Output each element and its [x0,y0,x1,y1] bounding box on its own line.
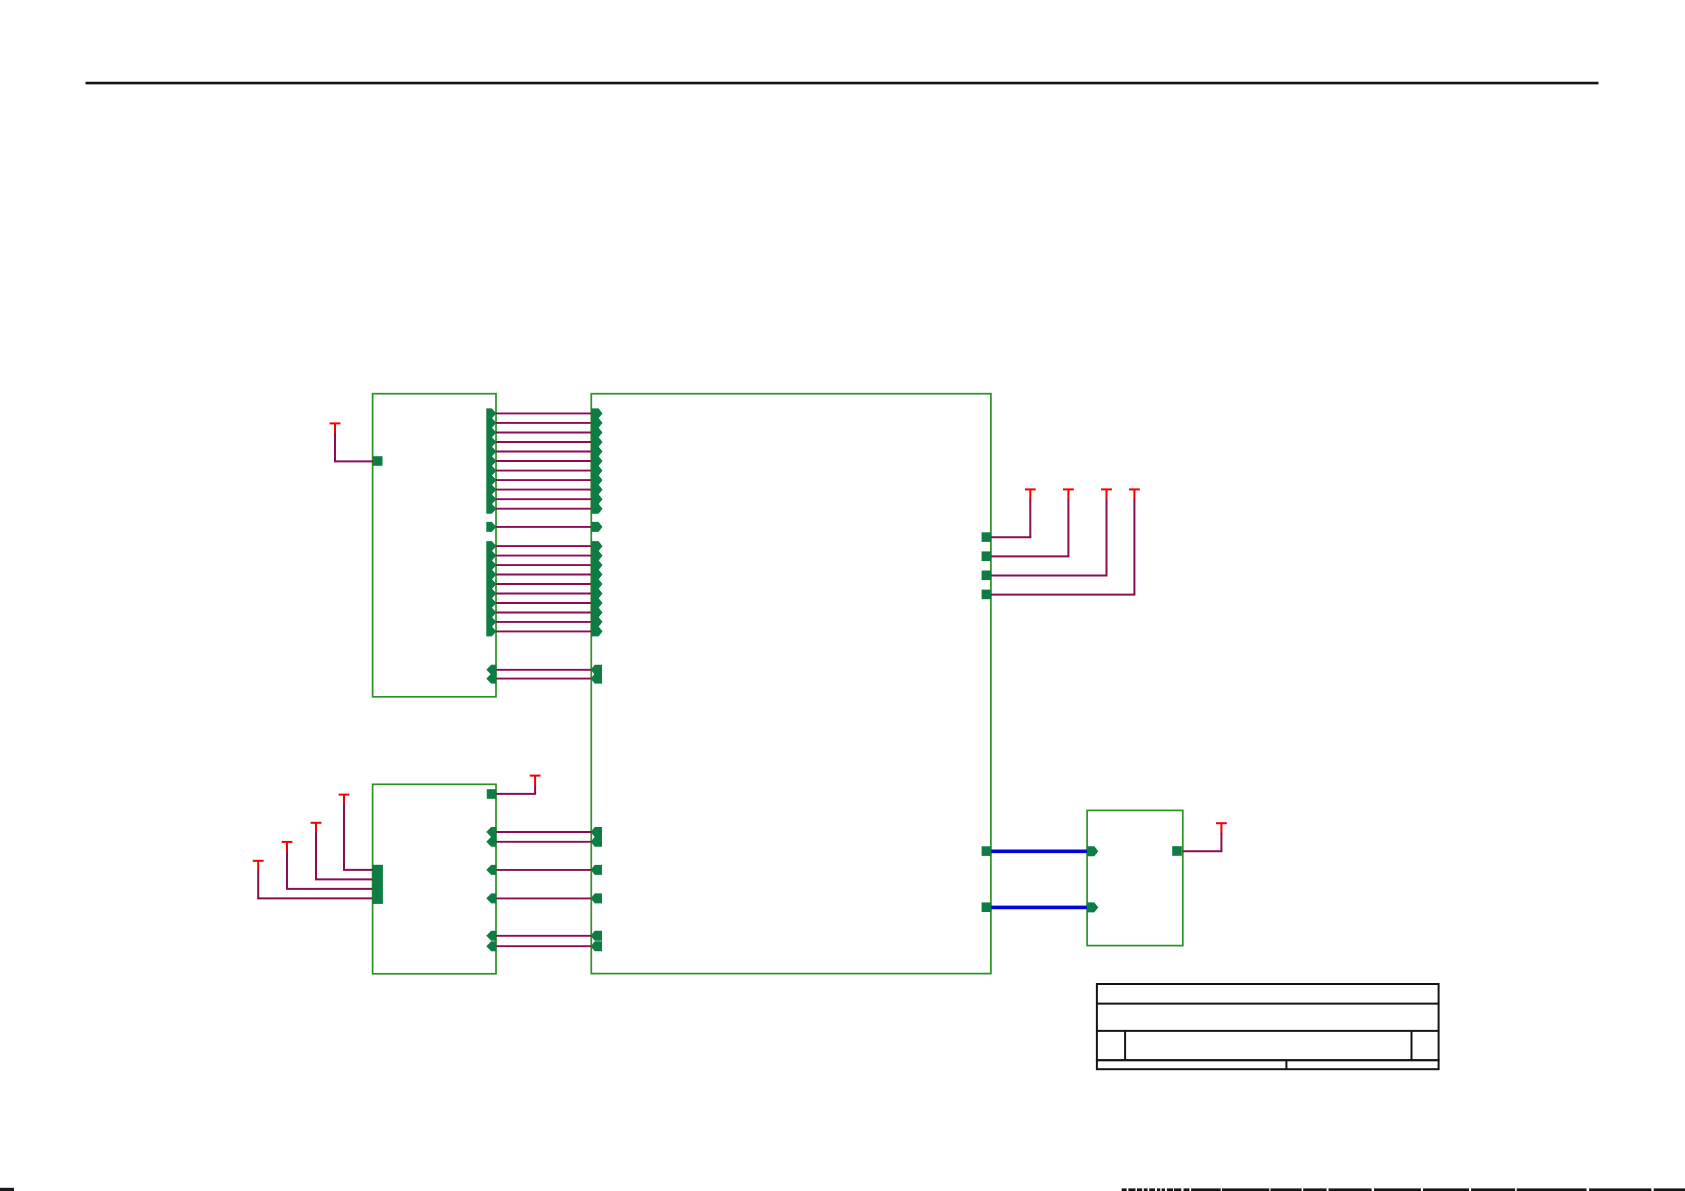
pin J1.A2 [486,428,496,438]
pin U2.VOUT (square) [1172,846,1182,856]
pin J1.B4 [486,579,496,589]
power symbol VSS3 (J2 left) [282,841,293,843]
wire VOUT to U2 [1220,833,1222,851]
pin J1.C1 [486,674,496,684]
pin J1.B6 [486,598,496,608]
pin J2.D1 [486,837,496,847]
wire VCC to J1 pin 1 [334,433,336,461]
pin U1.A3 [591,437,603,447]
pin J2.D0 [486,827,496,837]
wire CTRL0 J1 to U1 [496,669,592,671]
pin J1.A4 [486,447,496,457]
pin J1.C0 [486,665,496,675]
pin U1.A4 [591,447,603,457]
wire ADDR8 J1 to U1 [496,621,592,623]
wire DATA9 J1 to U1 [496,498,592,500]
wire VSS3 to J2 [286,851,288,889]
pin J1.B1 [486,551,496,561]
wire ADDR7 J1 to U1 [496,612,592,614]
wire ADDR2 J1 to U1 [496,564,592,566]
wire DATA3 J1 to U1 [496,441,592,443]
pin J2.E0 [486,865,496,875]
power symbol VSS1 (J2 left) [339,794,350,796]
pin J2.VREF (square) [487,789,497,799]
wire VREF to J2 [534,785,536,794]
pin U1.A2 [591,428,603,438]
bus wire BUS1 U1 to U2 (blue) [991,906,1087,910]
wire ADDR6 J1 to U1 [496,602,592,604]
wire F0 J2 to U1 [496,897,592,899]
sheet border top line [86,82,1599,85]
pin J1.B9 [486,626,496,636]
wire ADDR0 J1 to U1 [496,545,592,547]
power symbol VDD2 (U1 right) [1063,488,1074,490]
connector J2 (lower-left block) [373,784,496,974]
wire VSS2 to J2 [315,832,317,879]
pin J1.A9 [486,494,496,504]
pin J1.B2 [486,560,496,570]
pin J1.A10 [486,504,496,514]
pin U1.B7 [591,608,603,618]
pin J1.A5 [486,456,496,466]
power symbol VSS2 (J2 left) [311,822,322,824]
wire ADDR9 J1 to U1 [496,630,592,632]
wire VSS4 to J2 [257,870,259,898]
pin U2.BUS1 [1087,902,1099,912]
wire VSS1 to J2 [343,804,345,870]
wire CLK J1 to U1 [496,526,592,528]
pin J2.G1 [486,941,496,951]
pin J2.G0 [486,931,496,941]
pin J1.A1 [486,418,496,428]
wire E0 J2 to U1 [496,869,592,871]
wire VDD1 to U1 [1029,499,1031,537]
pin J1.B3 [486,570,496,580]
wire G0 J2 to U1 [496,935,592,937]
wire DATA5 J1 to U1 [496,460,592,462]
wire ADDR4 J1 to U1 [496,583,592,585]
pin U1.B4 [591,579,603,589]
IC U1 (main block) [591,394,991,974]
wire ADDR1 J1 to U1 [496,555,592,557]
wire D1 J2 to U1 [496,841,592,843]
IC U2 (lower-right block) [1087,810,1183,945]
pin U1.F0 [591,893,602,903]
pin U1.CLK [591,522,603,532]
pin U1.A9 [591,494,603,504]
wire D0 J2 to U1 [496,831,592,833]
pin U1.C1 [591,674,602,684]
pin U1.B6 [591,598,603,608]
pin U1.A7 [591,475,603,485]
wire VDD2 to U1 [1067,499,1069,556]
pin U1.B5 [591,589,603,599]
pin J2.F0 [486,893,496,903]
wire CTRL1 J1 to U1 [496,678,592,680]
pin U1.B2 [591,560,603,570]
pin U1.A8 [591,485,603,495]
wire DATA0 J1 to U1 [496,412,592,414]
pin U1.BUS0 (square) [982,846,992,856]
pin J1.B7 [486,608,496,618]
pin U2.BUS0 [1087,846,1099,856]
pin U1.A0 [591,408,603,418]
pin J1.A0 [486,408,496,418]
pin U1.D1 [591,837,602,847]
wire DATA10 J1 to U1 [496,508,592,510]
power symbol VDD3 (U1 right) [1101,488,1112,490]
pin U1.A10 [591,504,603,514]
pin J1.CLK [486,522,496,532]
pin U1.P1 (square) [982,532,992,542]
pin U1.B8 [591,617,603,627]
power symbol VSS4 (J2 left) [253,860,264,862]
wire ADDR5 J1 to U1 [496,593,592,595]
pin U1.BUS1 (square) [982,902,992,912]
pin J1.B5 [486,589,496,599]
pin U1.P4 (square) [982,590,992,600]
pin J1.B0 [486,541,496,551]
pin bar J2.1-4 (merged square pins) [372,865,383,904]
pin U1.D0 [591,827,602,837]
pin U1.A6 [591,466,603,476]
connector J1 (upper-left block) [373,394,496,697]
pin U1.G1 [591,941,602,951]
pin U1.G0 [591,931,602,941]
pin U1.B1 [591,551,603,561]
wire DATA1 J1 to U1 [496,422,592,424]
pin U1.E0 [591,865,602,875]
title block (bottom-right) [1097,984,1439,1060]
pin J1.A3 [486,437,496,447]
pin U1.A1 [591,418,603,428]
pin U1.B3 [591,570,603,580]
power symbol VCC (J1 pin 1) [330,422,341,424]
power symbol VDD4 (U1 right) [1129,488,1140,490]
pin U1.A5 [591,456,603,466]
pin U1.B0 [591,541,603,551]
pin J1.A7 [486,475,496,485]
power symbol VREF (J2 top) [530,775,541,777]
wire DATA7 J1 to U1 [496,479,592,481]
pin J1.A8 [486,485,496,495]
footer text fragment (bottom-left corner) [0,1188,14,1191]
power symbol VDD1 (U1 right) [1025,488,1036,490]
wire G1 J2 to U1 [496,945,592,947]
wire DATA2 J1 to U1 [496,432,592,434]
pin U1.P3 (square) [982,571,992,581]
power symbol VOUT (U2 right) [1216,822,1227,824]
bus wire BUS0 U1 to U2 (blue) [991,849,1087,853]
pin U1.P2 (square) [982,551,992,561]
wire DATA6 J1 to U1 [496,470,592,472]
wire DATA8 J1 to U1 [496,489,592,491]
pin J1.A6 [486,466,496,476]
wire VDD3 to U1 [1106,499,1108,575]
pin U1.C0 [591,665,602,675]
footer text line (bottom-right, clipped) [1122,1188,1127,1191]
wire DATA4 J1 to U1 [496,451,592,453]
wire ADDR3 J1 to U1 [496,574,592,576]
pin J1.1 (square) [373,456,383,466]
pin U1.B9 [591,626,603,636]
pin J1.B8 [486,617,496,627]
wire VDD4 to U1 [1133,499,1135,594]
